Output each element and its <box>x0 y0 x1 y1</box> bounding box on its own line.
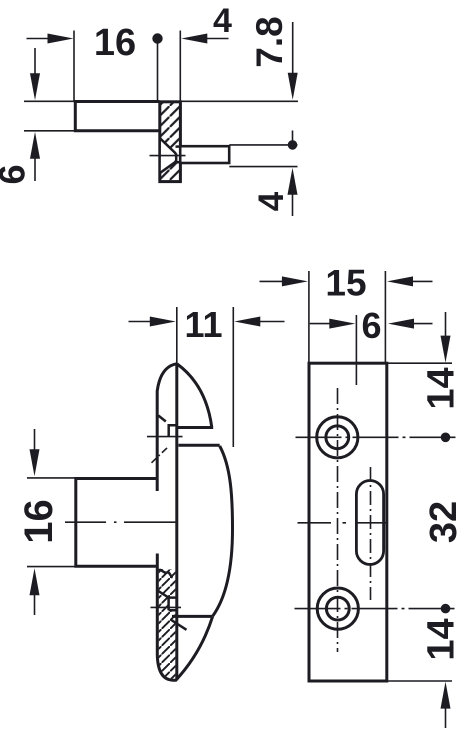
plate bottom edge extension line <box>388 680 453 682</box>
dimension 4 (right): up arrow <box>288 168 298 195</box>
screw head cone lower edge <box>160 161 177 174</box>
mushroom disc: bottom edge <box>172 615 213 618</box>
grip boss rectangle <box>76 479 158 567</box>
hole 2 horizontal centerline <box>295 608 457 610</box>
countersunk screw void (white) <box>161 140 176 173</box>
upper wing bar: rounded top, left edge <box>157 364 177 491</box>
dimension 4 (top): right extension line <box>179 31 181 102</box>
svg-text:32: 32 <box>423 501 463 543</box>
svg-text:16: 16 <box>94 22 136 64</box>
45-degree dash-dot (upper neck) <box>152 446 169 463</box>
dimension 11: right extension line <box>232 307 234 447</box>
hole 1 horizontal centerline <box>296 436 457 438</box>
slot centerline <box>370 467 372 600</box>
dimension 16 (knob): up arrow <box>30 568 40 595</box>
16-dim top reference line <box>27 477 75 479</box>
axis extension up to dimension 11 <box>176 307 178 364</box>
shank upper edge inside flange <box>176 145 181 148</box>
dot extension line down to flange <box>157 44 159 102</box>
svg-text:6: 6 <box>0 164 33 184</box>
lower cross-hole centerline <box>151 606 182 608</box>
dimension 6: left arrow (inside) <box>310 323 334 325</box>
knob back face axis line <box>175 364 178 681</box>
svg-text:4: 4 <box>213 2 232 40</box>
svg-text:7.8: 7.8 <box>249 16 290 67</box>
dot at hole 2 center <box>441 604 451 614</box>
plate horizontal centerline <box>298 522 387 524</box>
upper sail (wing upper blade) <box>177 364 212 428</box>
hole 2 outer circle <box>317 588 358 629</box>
stub top extension line with dot <box>229 144 297 146</box>
shank lower edge inside flange <box>176 161 181 164</box>
stub bottom extension line <box>229 166 297 168</box>
dimension 16 (knob): down arrow <box>34 429 36 455</box>
hole 2 inner circle <box>326 597 349 620</box>
dimension 15: right extension line <box>384 271 386 363</box>
dimension 6 (left): down arrow <box>34 48 36 75</box>
bottom-of-grip extension line <box>24 130 76 132</box>
dimension 7.8: vertical line with down arrow <box>292 22 294 78</box>
knob axis horizontal centerline <box>65 521 177 523</box>
knob grip bar (side profile) <box>75 102 159 131</box>
svg-text:14: 14 <box>421 367 463 409</box>
screw shank stub <box>180 146 229 163</box>
hole 1 inner circle <box>326 426 349 449</box>
svg-text:16: 16 <box>17 499 61 544</box>
svg-text:15: 15 <box>325 263 366 304</box>
dimension 11: right arrow <box>234 317 260 327</box>
dimension 15: left extension line <box>308 271 310 363</box>
svg-text:11: 11 <box>184 304 222 345</box>
mushroom disc: top edge <box>179 444 220 447</box>
dimension 15: left arrow <box>260 280 287 282</box>
dimension 6: extension line (slot edge) <box>355 315 357 385</box>
16-dim bottom reference line <box>27 566 75 568</box>
upper cone diagonal <box>158 416 166 422</box>
bottom up arrow <box>441 682 451 709</box>
dimension 16 (top): left arrow <box>27 38 53 40</box>
shank axis centerline <box>150 155 186 157</box>
vertical centerline through holes <box>337 388 339 652</box>
slot (vertical oblong) <box>356 481 383 565</box>
upper cross-hole centerline <box>147 436 183 438</box>
wavy break line (lower neck) <box>158 570 172 578</box>
dimension 16: left extension line <box>73 31 75 102</box>
svg-text:6: 6 <box>361 305 381 346</box>
upper countersink box <box>169 425 177 436</box>
svg-text:14: 14 <box>421 618 463 660</box>
right dimension column: top down arrow <box>445 312 447 341</box>
top face extension line <box>24 100 298 102</box>
dimension 15: right arrow <box>387 276 413 286</box>
lower sail (wing lower blade) <box>176 617 213 681</box>
mushroom disc: face arc <box>213 446 233 616</box>
dimension 6: right arrow <box>388 319 414 329</box>
plate top edge extension line <box>388 362 453 364</box>
dimension 16: reference dot <box>152 33 162 43</box>
reference dot (right of stub) <box>288 140 298 150</box>
short diagonals below box <box>171 620 187 630</box>
countersink land (vertical) <box>175 154 178 161</box>
lower countersink box (white) <box>169 598 177 611</box>
svg-text:4: 4 <box>252 191 291 211</box>
dimension 4: left-pointing arrow <box>181 34 207 44</box>
lower wing bar: left edge with rounded bottom <box>157 554 177 681</box>
dimension 11: left arrow <box>129 321 155 323</box>
dot at hole 1 center <box>441 433 451 443</box>
hole 1 outer circle <box>317 417 358 458</box>
dimension 6: up arrow <box>30 132 40 159</box>
lower cone diagonal <box>158 591 169 598</box>
screw head cone upper edge <box>160 138 176 154</box>
plate outline <box>309 363 387 681</box>
flange body (hatched section) <box>160 102 181 182</box>
